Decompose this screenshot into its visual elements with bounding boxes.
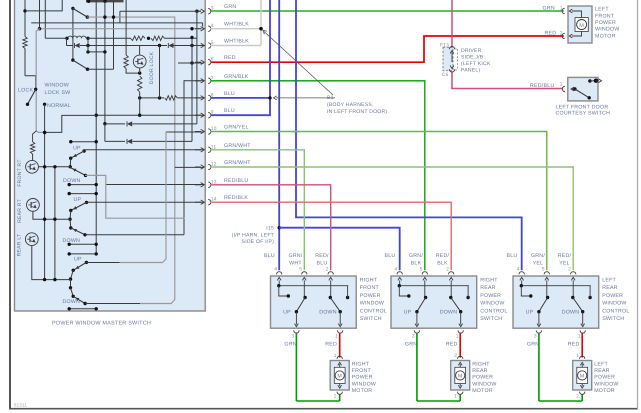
svg-text:SIDE J/B: SIDE J/B <box>461 55 484 61</box>
svg-text:RED: RED <box>224 55 236 61</box>
svg-text:REAR: REAR <box>594 368 610 374</box>
svg-text:RED/BLK: RED/BLK <box>224 195 248 201</box>
svg-text:MOTOR: MOTOR <box>594 388 615 394</box>
svg-text:DRIVER: DRIVER <box>461 48 482 54</box>
svg-text:BLK: BLK <box>411 261 422 267</box>
svg-text:RED/BLU: RED/BLU <box>224 178 248 184</box>
svg-text:IN LEFT FRONT DOOR): IN LEFT FRONT DOOR) <box>327 109 387 115</box>
svg-text:UP: UP <box>74 257 82 263</box>
svg-text:1: 1 <box>334 353 337 359</box>
svg-text:B1: B1 <box>327 95 334 101</box>
svg-text:LOCK SW: LOCK SW <box>45 90 71 96</box>
svg-text:REAR RT: REAR RT <box>17 199 23 223</box>
svg-text:GRN/YEL: GRN/YEL <box>224 125 249 131</box>
svg-text:1: 1 <box>456 334 459 340</box>
svg-text:2: 2 <box>560 30 563 36</box>
svg-text:MOTOR: MOTOR <box>352 388 373 394</box>
svg-text:(I/P HARN, LEFT: (I/P HARN, LEFT <box>232 233 274 239</box>
svg-text:GRN: GRN <box>543 5 555 11</box>
svg-text:C6: C6 <box>442 72 449 78</box>
svg-text:4: 4 <box>274 267 277 273</box>
svg-text:F13: F13 <box>440 43 449 49</box>
svg-text:GRN/BLK: GRN/BLK <box>224 74 249 80</box>
svg-text:WINDOW: WINDOW <box>472 381 496 387</box>
svg-text:GRN/: GRN/ <box>409 253 423 259</box>
svg-text:REAR: REAR <box>472 368 488 374</box>
svg-text:3: 3 <box>412 334 415 340</box>
svg-text:RIGHT: RIGHT <box>360 278 378 284</box>
svg-text:1: 1 <box>578 334 581 340</box>
svg-text:DOWN: DOWN <box>440 310 458 316</box>
svg-text:POWER: POWER <box>360 293 381 299</box>
svg-text:POWER: POWER <box>595 20 616 26</box>
svg-text:LOCK: LOCK <box>18 88 33 94</box>
svg-text:REAR: REAR <box>480 285 496 291</box>
svg-text:DOWN: DOWN <box>319 310 337 316</box>
svg-text:BLK: BLK <box>437 261 448 267</box>
svg-text:NORMAL: NORMAL <box>47 103 71 109</box>
svg-text:REAR: REAR <box>602 285 618 291</box>
svg-text:CONTROL: CONTROL <box>360 308 387 314</box>
svg-text:M: M <box>337 374 342 380</box>
svg-text:GRN: GRN <box>527 341 539 347</box>
svg-text:5: 5 <box>299 267 302 273</box>
svg-text:UP: UP <box>526 310 534 316</box>
svg-text:WHT/BLK: WHT/BLK <box>224 22 249 28</box>
svg-text:SWITCH: SWITCH <box>602 316 624 322</box>
svg-text:MOTOR: MOTOR <box>472 388 493 394</box>
svg-text:SWITCH: SWITCH <box>480 316 502 322</box>
svg-text:UP: UP <box>283 310 291 316</box>
svg-text:GRN: GRN <box>284 341 296 347</box>
svg-text:CONTROL: CONTROL <box>602 308 629 314</box>
svg-text:UP: UP <box>73 146 81 152</box>
svg-text:DOWN: DOWN <box>63 238 81 244</box>
svg-text:UP: UP <box>404 310 412 316</box>
svg-text:2: 2 <box>568 267 571 273</box>
svg-text:WINDOW: WINDOW <box>594 381 618 387</box>
svg-text:FRONT: FRONT <box>360 285 380 291</box>
svg-text:POWER: POWER <box>602 293 623 299</box>
svg-text:MOTOR: MOTOR <box>595 33 616 39</box>
svg-text:4: 4 <box>395 267 398 273</box>
svg-text:BLU: BLU <box>507 253 518 259</box>
svg-text:GRN/: GRN/ <box>531 253 545 259</box>
svg-text:YEL: YEL <box>559 261 570 267</box>
svg-text:LEFT: LEFT <box>595 7 609 13</box>
svg-text:CONTROL: CONTROL <box>480 308 507 314</box>
svg-text:3: 3 <box>291 334 294 340</box>
svg-text:LEFT: LEFT <box>594 362 608 368</box>
svg-text:RED: RED <box>568 341 580 347</box>
svg-text:POWER: POWER <box>472 375 493 381</box>
svg-text:GRN: GRN <box>405 341 417 347</box>
svg-text:DOWN: DOWN <box>63 178 81 184</box>
svg-text:RED/BLU: RED/BLU <box>530 83 554 89</box>
svg-text:2: 2 <box>454 353 457 359</box>
svg-text:M: M <box>579 23 584 29</box>
svg-text:BLU: BLU <box>317 261 328 267</box>
svg-text:WINDOW: WINDOW <box>360 301 384 307</box>
svg-text:RIGHT: RIGHT <box>472 362 490 368</box>
svg-text:WHT: WHT <box>289 261 302 267</box>
svg-text:WHT/BLK: WHT/BLK <box>224 39 249 45</box>
svg-text:GRN/: GRN/ <box>288 253 302 259</box>
svg-text:FRONT: FRONT <box>352 368 372 374</box>
svg-text:RIGHT: RIGHT <box>352 362 370 368</box>
svg-text:POWER WINDOW MASTER SWITCH: POWER WINDOW MASTER SWITCH <box>52 321 151 327</box>
svg-text:1: 1 <box>576 353 579 359</box>
svg-text:DOWN: DOWN <box>63 299 81 305</box>
svg-text:REAR LT: REAR LT <box>17 234 23 257</box>
svg-text:SIDE OF I/P): SIDE OF I/P) <box>242 239 274 245</box>
svg-text:I15: I15 <box>266 226 274 232</box>
svg-text:(LEFT KICK: (LEFT KICK <box>461 61 491 67</box>
svg-text:WINDOW: WINDOW <box>595 27 619 33</box>
svg-text:LEFT: LEFT <box>602 278 616 284</box>
svg-text:GRN/WHT: GRN/WHT <box>224 143 251 149</box>
svg-text:RED: RED <box>545 30 557 36</box>
svg-text:WINDOW: WINDOW <box>352 381 376 387</box>
svg-text:SWITCH: SWITCH <box>360 316 382 322</box>
svg-text:RED/: RED/ <box>558 253 572 259</box>
svg-text:M: M <box>580 374 585 380</box>
svg-text:WINDOW: WINDOW <box>480 301 504 307</box>
svg-text:UP: UP <box>74 197 82 203</box>
svg-text:1: 1 <box>335 334 338 340</box>
svg-text:1: 1 <box>560 82 563 88</box>
svg-text:BLU: BLU <box>264 253 275 259</box>
svg-text:DOWN: DOWN <box>562 310 580 316</box>
svg-text:WINDOW: WINDOW <box>45 83 69 89</box>
svg-text:2: 2 <box>326 267 329 273</box>
svg-text:BLU: BLU <box>385 253 396 259</box>
svg-text:COURTESY SWITCH: COURTESY SWITCH <box>556 111 611 117</box>
svg-text:POWER: POWER <box>352 375 373 381</box>
svg-text:WINDOW: WINDOW <box>602 301 626 307</box>
svg-text:YEL: YEL <box>533 261 544 267</box>
svg-text:POWER: POWER <box>594 375 615 381</box>
svg-text:61311: 61311 <box>14 403 27 408</box>
svg-text:BLU: BLU <box>224 91 235 97</box>
svg-text:1: 1 <box>454 393 457 399</box>
svg-text:FRONT: FRONT <box>595 13 615 19</box>
svg-text:1: 1 <box>560 5 563 11</box>
svg-text:FRONT RT: FRONT RT <box>17 159 23 186</box>
svg-text:RED: RED <box>446 341 458 347</box>
svg-text:POWER: POWER <box>480 293 501 299</box>
svg-text:3: 3 <box>534 334 537 340</box>
svg-text:RIGHT: RIGHT <box>480 278 498 284</box>
svg-text:GRN: GRN <box>224 4 236 10</box>
svg-text:5: 5 <box>420 267 423 273</box>
svg-text:RED/: RED/ <box>315 253 329 259</box>
svg-text:M: M <box>458 374 463 380</box>
svg-text:2: 2 <box>446 267 449 273</box>
svg-text:2: 2 <box>576 393 579 399</box>
svg-text:DOOR LOCK: DOOR LOCK <box>149 51 155 84</box>
svg-text:4: 4 <box>517 267 520 273</box>
svg-text:(BODY HARNESS,: (BODY HARNESS, <box>327 102 374 108</box>
svg-text:BLU: BLU <box>224 108 235 114</box>
svg-text:RED/: RED/ <box>436 253 450 259</box>
svg-text:RED: RED <box>325 341 337 347</box>
svg-text:PANEL): PANEL) <box>461 68 480 74</box>
svg-text:GRN/WHT: GRN/WHT <box>224 160 251 166</box>
svg-text:5: 5 <box>542 267 545 273</box>
svg-text:2: 2 <box>334 393 337 399</box>
